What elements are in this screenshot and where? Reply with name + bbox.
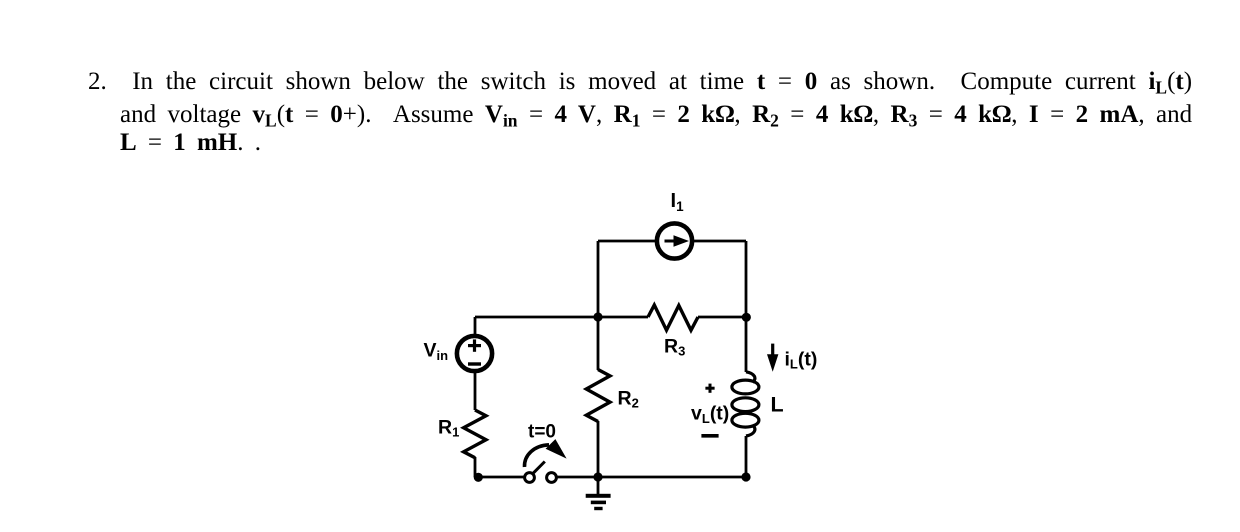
- wire middle horizontal left segment: [475, 316, 648, 319]
- current arrow iL(t): [767, 344, 778, 372]
- wire left branch below R1: [474, 457, 477, 477]
- wire left branch Vin to R1: [474, 371, 477, 410]
- wire left branch above Vin: [474, 317, 477, 336]
- inductor L coil loop 3: [732, 413, 759, 427]
- svg-text:I1: I1: [671, 190, 685, 214]
- switch arrowhead: [546, 439, 567, 459]
- resistor R3 zigzag: [648, 305, 698, 330]
- svg-text:R2: R2: [618, 388, 639, 411]
- resistor R2 zigzag: [586, 370, 610, 422]
- current source I1 arrow: [665, 235, 690, 247]
- ground symbol: [586, 494, 611, 510]
- inductor L bottom hook: [746, 425, 755, 436]
- junction dot bottom-left node: [474, 473, 483, 482]
- wire ground stub: [597, 477, 600, 494]
- switch right contact circle: [547, 473, 557, 483]
- svg-text:Vin: Vin: [424, 340, 449, 363]
- wire top horizontal left of I1: [598, 240, 656, 243]
- wire bottom left to switch: [476, 476, 525, 479]
- resistor R1 zigzag: [464, 410, 486, 458]
- switch left contact circle: [525, 473, 535, 483]
- wire top-left vertical: [597, 241, 600, 317]
- wire bottom switch to right: [557, 476, 747, 479]
- Vin minus sign: [468, 362, 481, 365]
- wire R2 branch top: [597, 317, 600, 370]
- voltage source Vin circle: [457, 336, 492, 371]
- junction dot middle-left node: [593, 312, 602, 321]
- switch motion arc: [524, 445, 549, 467]
- label vL(t) plus sign: [705, 384, 714, 393]
- wire inductor branch bottom: [745, 436, 748, 477]
- junction dot bottom-center node: [593, 472, 602, 481]
- inductor L top hook: [746, 372, 755, 382]
- problem text line 1: [88, 68, 1192, 96]
- switch blade: [533, 462, 545, 474]
- junction dot bottom-right node: [741, 472, 750, 481]
- problem text line 3: [120, 129, 261, 157]
- inductor L coil loop 2: [732, 398, 759, 412]
- wire inductor branch top: [745, 317, 748, 372]
- svg-text:R1: R1: [438, 416, 459, 439]
- problem text line 2: [120, 101, 1192, 129]
- svg-text:R3: R3: [664, 336, 685, 359]
- wire top-right vertical: [745, 241, 748, 317]
- wire middle horizontal right segment: [698, 316, 746, 319]
- svg-text:L: L: [771, 393, 784, 417]
- wire top horizontal right of I1: [693, 240, 746, 243]
- svg-text:t=0: t=0: [528, 422, 556, 443]
- wire R2 branch bottom: [597, 421, 600, 477]
- current source I1 circle: [657, 223, 692, 258]
- junction dot middle-right node: [742, 313, 751, 322]
- svg-text:iL(t): iL(t): [785, 349, 818, 372]
- svg-text:vL(t): vL(t): [691, 403, 729, 426]
- label vL(t) minus sign: [701, 434, 718, 438]
- Vin plus sign: [468, 339, 481, 351]
- inductor L coil loop 1: [732, 380, 759, 394]
